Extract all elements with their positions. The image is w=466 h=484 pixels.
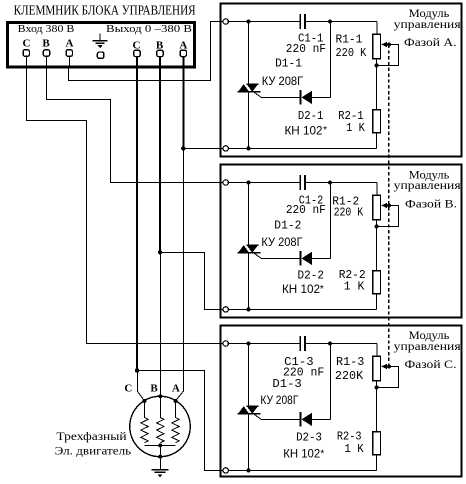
svg-text:КН 102: КН 102: [283, 447, 320, 461]
svg-text:1 K: 1 K: [344, 280, 365, 293]
svg-text:*: *: [323, 124, 327, 136]
svg-text:В: В: [150, 382, 158, 394]
svg-text:D2-1: D2-1: [298, 110, 324, 123]
svg-text:220 nF: 220 nF: [286, 204, 326, 217]
svg-text:220K: 220K: [335, 370, 363, 383]
svg-text:D1-2: D1-2: [274, 219, 301, 232]
svg-text:КН 102: КН 102: [285, 123, 323, 137]
svg-text:220 K: 220 K: [334, 206, 364, 219]
svg-text:В: В: [42, 37, 50, 49]
svg-text:R1-1: R1-1: [336, 33, 363, 46]
svg-text:управления: управления: [394, 19, 462, 31]
svg-text:D2-3: D2-3: [296, 431, 322, 444]
svg-text:*: *: [320, 283, 324, 295]
svg-text:управления: управления: [394, 180, 462, 192]
svg-text:1 K: 1 K: [346, 122, 365, 135]
svg-text:R2-3: R2-3: [337, 430, 362, 443]
svg-text:Фазой В.: Фазой В.: [405, 199, 457, 211]
svg-text:КУ 208Г: КУ 208Г: [261, 235, 303, 249]
svg-text:R2-1: R2-1: [338, 110, 364, 123]
svg-text:Трехфазный: Трехфазный: [56, 431, 126, 443]
svg-text:R1-3: R1-3: [336, 356, 364, 369]
svg-text:D1-1: D1-1: [275, 58, 302, 71]
svg-text:Вход 380 В: Вход 380 В: [18, 23, 75, 35]
svg-text:220 nF: 220 nF: [286, 43, 326, 56]
svg-text:управления: управления: [394, 341, 462, 353]
svg-text:С: С: [124, 382, 132, 394]
svg-text:D1-3: D1-3: [272, 378, 302, 391]
svg-text:КН 102: КН 102: [282, 282, 320, 296]
svg-text:Выход 0 –380 В: Выход 0 –380 В: [106, 23, 192, 35]
svg-text:Фазой А.: Фазой А.: [404, 37, 457, 49]
svg-text:А: А: [66, 37, 74, 49]
svg-text:КЛЕММНИК БЛОКА УПРАВЛЕНИЯ: КЛЕММНИК БЛОКА УПРАВЛЕНИЯ: [14, 3, 196, 18]
svg-text:220 K: 220 K: [336, 47, 367, 60]
svg-text:*: *: [320, 447, 324, 459]
svg-text:1 K: 1 K: [344, 443, 363, 456]
svg-text:Эл. двигатель: Эл. двигатель: [55, 446, 132, 458]
svg-text:Фазой С.: Фазой С.: [405, 359, 457, 371]
svg-text:С: С: [23, 37, 31, 49]
svg-text:КУ 208Г: КУ 208Г: [260, 393, 298, 407]
svg-text:КУ 208Г: КУ 208Г: [262, 74, 304, 88]
svg-text:А: А: [172, 382, 180, 394]
svg-text:D2-2: D2-2: [298, 270, 325, 283]
